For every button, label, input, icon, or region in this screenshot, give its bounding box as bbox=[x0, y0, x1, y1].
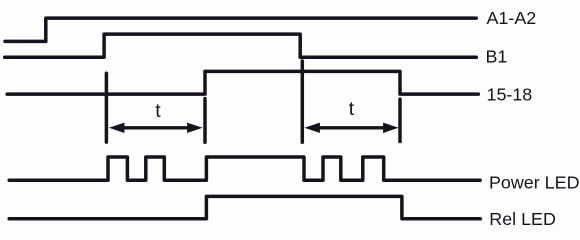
dimension tick 1 bbox=[105, 73, 109, 142]
waveform 15-18 bbox=[7, 71, 478, 94]
svg-text:B1: B1 bbox=[486, 47, 508, 67]
dimension tick 4 bbox=[398, 99, 402, 142]
svg-text:A1-A2: A1-A2 bbox=[487, 8, 537, 28]
svg-text:Rel LED: Rel LED bbox=[489, 209, 556, 229]
waveform A1-A2 bbox=[5, 18, 476, 41]
svg-text:Power LED: Power LED bbox=[489, 173, 580, 193]
waveform Rel LED bbox=[9, 196, 480, 218]
svg-text:t: t bbox=[349, 98, 355, 120]
waveform B1 bbox=[5, 34, 477, 57]
svg-text:t: t bbox=[155, 100, 161, 122]
dimension arrow 1 bbox=[109, 123, 203, 133]
dimension arrow 2 bbox=[304, 123, 398, 133]
dimension tick 3 bbox=[301, 61, 305, 142]
waveform Power LED bbox=[9, 157, 480, 180]
dimension tick 2 bbox=[203, 99, 207, 143]
svg-text:15-18: 15-18 bbox=[487, 84, 533, 104]
